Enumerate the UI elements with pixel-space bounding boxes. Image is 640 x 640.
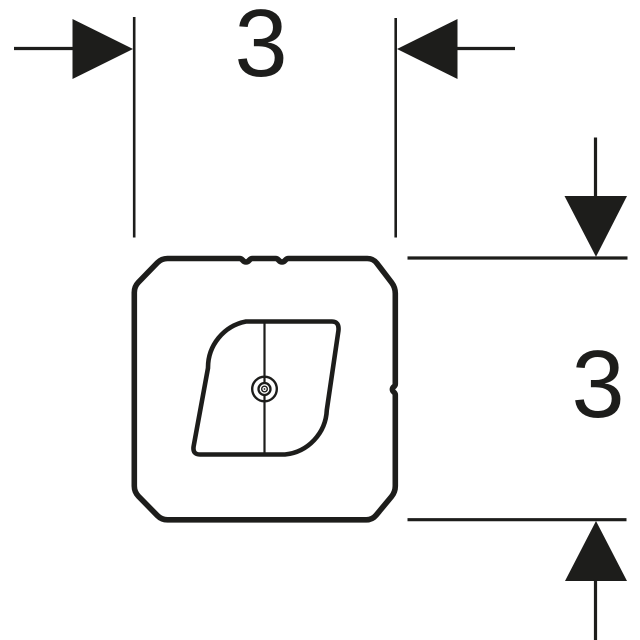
dimension line upper (right dimension) <box>408 256 628 259</box>
extension line left (top dimension) <box>133 17 136 238</box>
dimension arrow right (tail) <box>456 47 515 50</box>
svg-text:3: 3 <box>234 0 287 97</box>
screw outer ring <box>252 377 277 402</box>
svg-text:3: 3 <box>571 332 624 438</box>
dimension line lower (right dimension) <box>408 518 627 521</box>
dimension arrow left (tail) <box>14 47 74 50</box>
up arrow (tail) <box>594 579 597 640</box>
extension line right (top dimension) <box>394 18 397 238</box>
up arrow (head) <box>565 521 627 581</box>
dimension arrow right (head) <box>397 19 458 79</box>
screw inner ring <box>262 386 268 392</box>
cover plate outline (chamfered square with fixing notches) <box>134 259 395 520</box>
center line through lever plate <box>263 322 265 455</box>
screw middle ring <box>259 383 271 395</box>
dimension arrow left (head) <box>73 19 134 79</box>
screw center dot <box>264 388 266 390</box>
inner lever plate (curved quadrilateral) <box>193 322 338 455</box>
down arrow (tail) <box>594 138 597 199</box>
down arrow (head) <box>565 196 628 257</box>
